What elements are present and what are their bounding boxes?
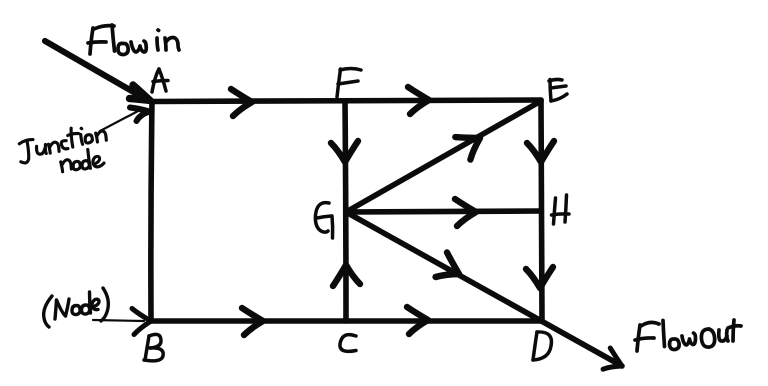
wire edge G-H (middle horizontal)	[346, 211, 541, 212]
arrowhead A to F	[231, 89, 252, 116]
arrowhead C to G (up)	[333, 265, 360, 286]
node label G	[315, 203, 332, 238]
wire edge A-B (left side)	[151, 101, 152, 321]
pointer line junction-node to A	[100, 110, 140, 131]
text Flow Out	[635, 320, 741, 351]
wire edge F-G-C (middle vertical)	[345, 101, 346, 321]
text (Node)	[44, 288, 109, 327]
text Junction	[18, 125, 107, 163]
wire edge B-C-D (bottom side)	[151, 318, 542, 324]
arrowhead H to D (down)	[526, 267, 553, 288]
node label B	[144, 334, 163, 361]
arrowhead F to G (down)	[331, 141, 358, 162]
wire edge A-F-E (top side)	[152, 100, 541, 102]
arrowhead G to E (diagonal)	[455, 127, 487, 161]
arrowhead node pointer	[132, 309, 151, 335]
pointer line node to B	[93, 320, 144, 321]
wire edge G-D plus flow-out tail (diagonal down)	[346, 212, 622, 366]
wire edge E-H-D (right vertical)	[541, 100, 542, 321]
arrowhead flow-in at A	[130, 85, 151, 101]
arrowhead C to D	[407, 307, 428, 334]
node label H	[552, 195, 570, 224]
arrowhead E to H (down)	[527, 141, 554, 162]
wire flow-in line	[45, 41, 144, 98]
arrowhead G to D (diagonal)	[434, 252, 465, 286]
node label A	[152, 69, 168, 92]
arrowhead G to H	[455, 199, 476, 226]
arrowhead junction pointer (solid)	[130, 108, 150, 122]
arrowhead B to C	[242, 308, 263, 335]
node label C	[340, 335, 356, 352]
node label F	[337, 69, 361, 98]
wire edge G-E (diagonal up)	[346, 101, 541, 212]
arrowhead flow-out tip	[600, 348, 627, 376]
node label E	[549, 79, 567, 101]
text Flow in	[88, 25, 179, 55]
arrowhead F to E	[408, 87, 429, 114]
text node	[60, 148, 105, 172]
node label D	[533, 332, 551, 360]
